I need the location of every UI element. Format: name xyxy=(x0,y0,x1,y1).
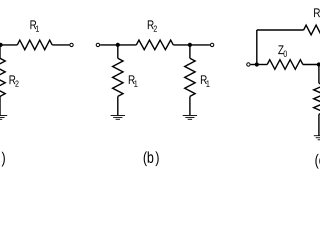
label (b) caption xyxy=(144,151,147,166)
wire: (b) right shunt top lead xyxy=(189,45,191,58)
label R1 (a) xyxy=(30,20,36,29)
label R (c) bridge xyxy=(314,8,320,17)
label R2 (a) xyxy=(10,75,16,84)
wire: (c) rail to Z0 xyxy=(257,64,267,66)
wire: (c) shunt bottom lead xyxy=(318,114,320,135)
terminal: (a) output open circle xyxy=(70,43,73,46)
wire: (a) shunt bottom lead xyxy=(0,96,1,115)
wire: (c) input segment xyxy=(251,64,257,66)
wire: (c) shunt top lead xyxy=(318,65,320,84)
resistor Z0 (c) series xyxy=(267,60,303,70)
resistor R (c) bridge, cut by edge xyxy=(304,25,320,35)
wire: (b) R2 to right junction xyxy=(173,44,190,46)
wire: (c) top rail xyxy=(257,29,304,31)
ground (a) xyxy=(0,115,7,117)
wire: (a) rail right segment xyxy=(52,44,69,46)
resistor R1 (a) horizontal xyxy=(17,40,52,50)
node: circuit (a) input junction xyxy=(0,43,3,47)
wire: (b) rail output segment xyxy=(190,44,210,46)
wire: (b) right shunt bottom lead xyxy=(189,96,191,115)
resistor R2 (b) series xyxy=(136,40,173,50)
wire: (b) rail input segment xyxy=(100,44,118,46)
resistor R1 (b) right shunt xyxy=(185,58,195,96)
wire: (a) rail left segment xyxy=(0,44,17,46)
node: (c) right junction xyxy=(317,62,320,66)
wire: (c) left riser xyxy=(256,30,258,65)
node: (c) left junction xyxy=(255,62,259,66)
node: (b) right junction xyxy=(188,43,192,47)
resistor R (c) vertical shunt, cut by edge xyxy=(314,83,320,114)
label R2 (b) xyxy=(148,20,154,29)
label Z0 (c) xyxy=(278,45,283,54)
resistor R2 (a) vertical shunt xyxy=(0,58,5,96)
label R1 (b) left xyxy=(129,75,135,84)
label (a) caption xyxy=(2,152,5,167)
terminal: (b) input open circle xyxy=(96,43,99,46)
ground (c) xyxy=(314,135,320,137)
ground (b) right xyxy=(183,115,197,117)
wire: (b) left shunt top lead xyxy=(117,45,119,58)
wire: (a) shunt top lead xyxy=(0,45,1,58)
wire: (b) rail to R2 xyxy=(118,44,137,46)
label R1 (b) right xyxy=(201,75,207,84)
ground (b) left xyxy=(111,115,125,117)
wire: (b) left shunt bottom lead xyxy=(117,96,119,115)
terminal: (b) output open circle xyxy=(210,43,213,46)
terminal: (c) input open circle xyxy=(247,63,250,66)
wire: (c) Z0 to right junction xyxy=(303,64,319,66)
node: (b) left junction xyxy=(116,43,120,47)
label (c) caption xyxy=(315,154,320,169)
resistor R1 (b) left shunt xyxy=(113,58,123,96)
